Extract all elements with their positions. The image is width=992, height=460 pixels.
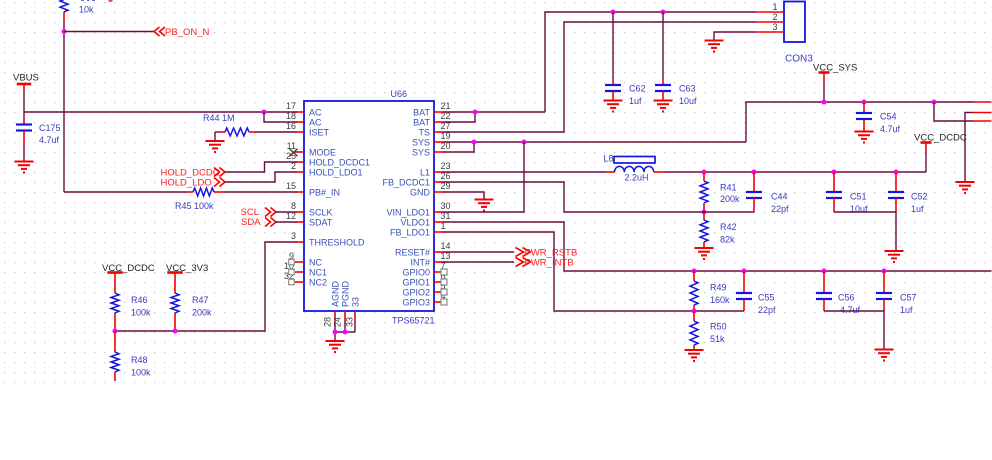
node junction AGND bbox=[333, 330, 338, 335]
pin 28 AGND bbox=[334, 311, 336, 321]
svg-text:4.7uf: 4.7uf bbox=[880, 124, 901, 134]
no-connect square GPIO2 bbox=[441, 289, 447, 295]
pin 15 PB#_IN bbox=[295, 191, 304, 193]
node junction C44 top bbox=[752, 170, 757, 175]
svg-text:RESET#: RESET# bbox=[395, 248, 430, 258]
svg-text:R47: R47 bbox=[192, 295, 209, 305]
op-amp U66 TPS65721 body bbox=[304, 101, 434, 311]
pin 7 GPIO0 bbox=[434, 271, 443, 273]
wire AC pin18 jog bbox=[264, 112, 297, 122]
svg-text:C63: C63 bbox=[679, 84, 696, 94]
svg-text:ISET: ISET bbox=[309, 128, 330, 138]
svg-text:4.7uf: 4.7uf bbox=[840, 305, 861, 315]
svg-text:28: 28 bbox=[323, 317, 333, 327]
wire VLDO1 rail bbox=[443, 222, 992, 271]
svg-text:8: 8 bbox=[291, 201, 296, 211]
pin 3 THRESHOLD bbox=[295, 241, 304, 243]
pin 29 GND bbox=[434, 191, 443, 193]
wire BAT pin22 jog bbox=[443, 112, 475, 122]
svg-text:200k: 200k bbox=[192, 308, 212, 318]
wire CON3 pin3 to ground bbox=[714, 32, 755, 41]
pin 21 BAT bbox=[434, 111, 443, 113]
node junction R47 bbox=[173, 329, 178, 334]
pin 33 PAD bbox=[354, 311, 356, 321]
svg-text:1uf: 1uf bbox=[911, 204, 924, 214]
svg-text:R41: R41 bbox=[720, 183, 737, 193]
svg-text:VLDO1: VLDO1 bbox=[400, 218, 430, 228]
wire VCC_DCDC rail bbox=[665, 171, 926, 173]
node junction SYS bbox=[472, 140, 477, 145]
pin 27 TS bbox=[434, 131, 443, 133]
svg-text:10k: 10k bbox=[79, 4, 94, 14]
svg-text:200k: 200k bbox=[720, 194, 740, 204]
node junction PGND bbox=[343, 330, 348, 335]
svg-text:HOLD_LDO: HOLD_LDO bbox=[161, 178, 212, 189]
wire SYS pin20 jog bbox=[443, 142, 474, 152]
svg-text:C55: C55 bbox=[758, 293, 775, 303]
svg-text:R49: R49 bbox=[710, 283, 727, 293]
svg-text:CON3: CON3 bbox=[785, 54, 813, 65]
svg-text:12: 12 bbox=[286, 211, 296, 221]
ground below C54 bbox=[855, 131, 874, 133]
pin 13 INT# bbox=[434, 261, 443, 263]
svg-text:PB_ON_N: PB_ON_N bbox=[165, 27, 209, 38]
svg-text:MODE: MODE bbox=[309, 148, 336, 158]
svg-text:INT#: INT# bbox=[410, 258, 430, 268]
wire VCC_SYS branch right bbox=[934, 102, 973, 121]
svg-text:C44: C44 bbox=[771, 192, 788, 202]
svg-text:TPS65721: TPS65721 bbox=[392, 316, 435, 326]
capacitor C51 10uf bbox=[833, 172, 835, 192]
node junction AC pins bbox=[262, 110, 267, 115]
node junction R41 top bbox=[702, 170, 707, 175]
svg-text:L8: L8 bbox=[604, 154, 614, 164]
wire VIN_LDO1 to SYS bbox=[443, 142, 524, 212]
svg-text:SCLK: SCLK bbox=[309, 208, 333, 218]
resistor R50 51k bbox=[693, 311, 695, 321]
svg-text:NC2: NC2 bbox=[309, 278, 327, 288]
wire SYS up to VCC_SYS rail bbox=[746, 102, 974, 142]
svg-text:PB#_IN: PB#_IN bbox=[309, 188, 340, 198]
ground below R50 bbox=[685, 349, 704, 351]
no-connect square GPIO3 bbox=[441, 299, 447, 305]
svg-text:11: 11 bbox=[287, 141, 296, 151]
wire BAT net bbox=[443, 111, 545, 113]
red label fragment top bbox=[109, 0, 113, 2]
node junction C56 top bbox=[822, 269, 827, 274]
svg-text:C56: C56 bbox=[838, 293, 855, 303]
resistor R45 100k on PB#_IN bbox=[64, 191, 186, 193]
node junction FB_LDO bbox=[692, 309, 697, 314]
resistor R_pullup 10k (clipped at top) bbox=[60, 0, 68, 12]
pin 4 GPIO3 bbox=[434, 301, 443, 303]
svg-text:VBUS: VBUS bbox=[13, 73, 39, 84]
svg-text:GND: GND bbox=[410, 188, 431, 198]
svg-text:3: 3 bbox=[772, 22, 777, 32]
pin 32 NC2 bbox=[295, 281, 304, 283]
svg-text:22pf: 22pf bbox=[771, 204, 789, 214]
ground below U66 bbox=[326, 340, 345, 342]
node junction FB_DCDC bbox=[702, 210, 707, 215]
svg-text:SYS: SYS bbox=[412, 148, 430, 158]
wire GND pin29 to ground bbox=[443, 192, 484, 200]
resistor R47 200k bbox=[171, 293, 179, 313]
pin 16 ISET bbox=[295, 131, 304, 133]
svg-text:4.7uf: 4.7uf bbox=[39, 135, 60, 145]
node junction VCC_SYS branch bbox=[932, 100, 937, 105]
pin 20 SYS bbox=[434, 151, 443, 153]
pin 3 CON3 bbox=[755, 31, 784, 33]
svg-text:R44 1M: R44 1M bbox=[203, 113, 235, 123]
pin 2 HOLD_LDO1 bbox=[295, 171, 304, 173]
svg-text:33: 33 bbox=[345, 317, 355, 327]
svg-text:THRESHOLD: THRESHOLD bbox=[309, 238, 365, 248]
svg-text:GPIO3: GPIO3 bbox=[402, 298, 430, 308]
node junction C63 tap bbox=[661, 10, 666, 15]
no-connect X on pin 11 MODE bbox=[290, 149, 298, 157]
capacitor C175 bbox=[23, 119, 25, 125]
svg-text:BAT: BAT bbox=[413, 118, 430, 128]
capacitor C63 10uf bbox=[662, 12, 664, 79]
svg-text:R46: R46 bbox=[131, 295, 148, 305]
svg-text:NC: NC bbox=[309, 258, 322, 268]
pin 9 NC bbox=[295, 261, 304, 263]
pin 10 NC1 bbox=[295, 271, 304, 273]
wire C51 C52 to ground bbox=[834, 212, 896, 251]
wire FB_LDO1 net bbox=[443, 232, 744, 311]
pin 5 GPIO2 bbox=[434, 291, 443, 293]
svg-text:R42: R42 bbox=[720, 222, 737, 232]
pin 18 AC bbox=[295, 121, 304, 123]
svg-text:BAT: BAT bbox=[413, 108, 430, 118]
svg-text:PGND: PGND bbox=[341, 280, 351, 307]
svg-text:FB_LDO1: FB_LDO1 bbox=[390, 228, 430, 238]
svg-text:PWR_INTB: PWR_INTB bbox=[525, 258, 574, 269]
wire FB_DCDC1 net bbox=[443, 182, 754, 212]
capacitor C44 22pf bbox=[753, 172, 755, 192]
svg-text:C175: C175 bbox=[39, 123, 61, 133]
node junction C62 tap bbox=[611, 10, 616, 15]
svg-text:21: 21 bbox=[441, 101, 451, 111]
ground right edge bbox=[956, 181, 975, 183]
svg-text:16: 16 bbox=[286, 121, 296, 131]
svg-text:AGND: AGND bbox=[331, 280, 341, 307]
svg-text:C51: C51 bbox=[850, 192, 867, 202]
svg-text:R48: R48 bbox=[131, 355, 148, 365]
svg-text:C52: C52 bbox=[911, 192, 928, 202]
svg-text:AC: AC bbox=[309, 108, 322, 118]
svg-text:3: 3 bbox=[291, 231, 296, 241]
svg-text:NC1: NC1 bbox=[309, 268, 327, 278]
svg-text:18: 18 bbox=[286, 111, 296, 121]
node junction SYS VIN tap bbox=[522, 140, 527, 145]
off-page connector PWR_RSTB bbox=[443, 251, 514, 253]
resistor R41 200k bbox=[703, 172, 705, 181]
wire SCL to SCLK bbox=[276, 211, 297, 213]
svg-text:17: 17 bbox=[286, 101, 296, 111]
node junction C51 top bbox=[832, 170, 837, 175]
resistor R48 100k bbox=[114, 331, 116, 352]
capacitor C56 4.7uf bbox=[823, 271, 825, 293]
pin 23 L1 bbox=[434, 171, 443, 173]
svg-text:C54: C54 bbox=[880, 112, 897, 122]
capacitor C57 1uf bbox=[883, 271, 885, 293]
wire PB_ON_N horizontal bbox=[64, 31, 154, 33]
wire VBUS down to C175 bbox=[23, 112, 25, 119]
ground CON3 pin3 bbox=[705, 40, 724, 42]
svg-text:24: 24 bbox=[333, 317, 343, 327]
wire HOLD_DCDC to pin 25 bbox=[225, 162, 297, 172]
resistor R42 82k bbox=[703, 212, 705, 220]
svg-text:TS: TS bbox=[418, 128, 430, 138]
wire CON3 pin2 to TS bbox=[443, 22, 755, 132]
node junction R49 top bbox=[692, 269, 697, 274]
wire PB_ON_N vertical bbox=[63, 21, 65, 192]
wire HOLD_LDO to pin 2 bbox=[225, 172, 297, 182]
wire L1 to inductor bbox=[443, 171, 605, 173]
resistor R46 100k bbox=[111, 293, 119, 313]
svg-text:GPIO0: GPIO0 bbox=[402, 268, 430, 278]
pin 17 AC bbox=[295, 111, 304, 113]
ground below C52 bbox=[885, 250, 904, 252]
node junction C55 top bbox=[742, 269, 747, 274]
capacitor C55 22pf bbox=[743, 271, 745, 293]
wire AGND PGND to ground bbox=[334, 321, 336, 332]
clipped reference text fragment top bbox=[81, 0, 95, 1]
svg-text:R50: R50 bbox=[710, 322, 727, 332]
svg-text:23: 23 bbox=[441, 161, 451, 171]
pin 12 SDAT bbox=[295, 221, 304, 223]
wire BAT up to CON3 pin1 bbox=[545, 12, 755, 112]
wire right edge to ground bbox=[972, 112, 992, 114]
node junction C54 tap bbox=[862, 100, 867, 105]
pin 26 FB_DCDC1 bbox=[434, 181, 443, 183]
svg-text:GPIO2: GPIO2 bbox=[402, 288, 430, 298]
svg-text:10uf: 10uf bbox=[679, 96, 697, 106]
svg-text:L1: L1 bbox=[420, 168, 430, 178]
svg-text:22pf: 22pf bbox=[758, 305, 776, 315]
pin 22 BAT bbox=[434, 121, 443, 123]
svg-text:1uf: 1uf bbox=[900, 305, 913, 315]
svg-text:2: 2 bbox=[772, 12, 777, 22]
node junction C57 top bbox=[882, 269, 887, 274]
capacitor C62 1uf bbox=[612, 12, 614, 79]
node junction R46 R48 bbox=[113, 329, 118, 334]
pin 30 VIN_LDO1 bbox=[434, 211, 443, 213]
pin 11 MODE bbox=[295, 151, 304, 153]
inductor L8 2.2uH bbox=[605, 171, 615, 173]
svg-text:AC: AC bbox=[309, 118, 322, 128]
svg-text:100k: 100k bbox=[131, 308, 151, 318]
wire C56 C57 to ground bbox=[824, 311, 884, 350]
svg-text:14: 14 bbox=[441, 241, 451, 251]
ground below R42 bbox=[695, 247, 714, 249]
svg-text:U66: U66 bbox=[391, 89, 408, 99]
ground pin29 bbox=[475, 199, 494, 201]
no-connect square GPIO1 bbox=[441, 279, 447, 285]
pin 6 GPIO1 bbox=[434, 281, 443, 283]
pin 25 HOLD_DCDC1 bbox=[295, 161, 304, 163]
svg-text:82k: 82k bbox=[720, 235, 735, 245]
ground below C175 bbox=[15, 161, 34, 163]
node junction C52 top bbox=[894, 170, 899, 175]
no-connect square GPIO0 bbox=[441, 269, 447, 275]
capacitor C54 4.7uf bbox=[863, 102, 865, 113]
svg-text:100k: 100k bbox=[131, 368, 151, 378]
svg-text:160k: 160k bbox=[710, 295, 730, 305]
pin 14 RESET# bbox=[434, 251, 443, 253]
svg-text:C62: C62 bbox=[629, 84, 646, 94]
node junction BAT bbox=[473, 110, 478, 115]
no-connect square pin 10 bbox=[289, 269, 295, 275]
node junction PB_ON_N bbox=[62, 29, 67, 34]
pin 31 VLDO1 bbox=[434, 221, 443, 223]
wire R44 to ground bbox=[214, 132, 216, 141]
svg-text:SYS: SYS bbox=[412, 138, 430, 148]
svg-text:GPIO1: GPIO1 bbox=[402, 278, 430, 288]
svg-text:33: 33 bbox=[351, 297, 361, 307]
capacitor C52 1uf bbox=[895, 172, 897, 192]
svg-text:R45 100k: R45 100k bbox=[175, 201, 214, 211]
svg-text:30: 30 bbox=[441, 201, 451, 211]
svg-text:FB_DCDC1: FB_DCDC1 bbox=[382, 178, 430, 188]
svg-text:HOLD_LDO1: HOLD_LDO1 bbox=[309, 168, 363, 178]
svg-text:15: 15 bbox=[286, 181, 296, 191]
svg-text:1: 1 bbox=[772, 2, 777, 12]
no-connect square pin 32 bbox=[289, 279, 295, 285]
ground below C63 bbox=[654, 100, 673, 102]
svg-text:51k: 51k bbox=[710, 334, 725, 344]
svg-text:SDA: SDA bbox=[241, 217, 261, 228]
svg-text:HOLD_DCDC1: HOLD_DCDC1 bbox=[309, 158, 370, 168]
no-connect square pin 9 bbox=[289, 259, 295, 265]
svg-text:SDAT: SDAT bbox=[309, 218, 333, 228]
svg-text:VIN_LDO1: VIN_LDO1 bbox=[386, 208, 430, 218]
ground below C62 bbox=[604, 100, 623, 102]
pin 1 FB_LDO1 bbox=[434, 231, 443, 233]
wire SDA to SDAT bbox=[276, 221, 297, 223]
connector CON3 body bbox=[784, 2, 805, 43]
svg-text:1uf: 1uf bbox=[629, 96, 642, 106]
pin 19 SYS bbox=[434, 141, 443, 143]
svg-text:2.2uH: 2.2uH bbox=[625, 173, 649, 183]
pin 8 SCLK bbox=[295, 211, 304, 213]
off-page connector PB_ON_N bbox=[154, 27, 160, 36]
off-page connector PWR_INTB bbox=[443, 261, 514, 263]
svg-text:2: 2 bbox=[291, 161, 296, 171]
svg-text:C57: C57 bbox=[900, 293, 917, 303]
pin 2 CON3 bbox=[755, 21, 784, 23]
node junction VCC_SYS bbox=[822, 100, 827, 105]
wire VBUS to AC pins bbox=[24, 111, 297, 113]
ground below R44 bbox=[206, 140, 225, 142]
pin 24 PGND bbox=[344, 311, 346, 321]
resistor R49 160k bbox=[693, 271, 695, 281]
wire SYS net bbox=[443, 141, 746, 143]
ground below C57 bbox=[875, 349, 894, 351]
wire THRESHOLD net bbox=[115, 242, 297, 331]
